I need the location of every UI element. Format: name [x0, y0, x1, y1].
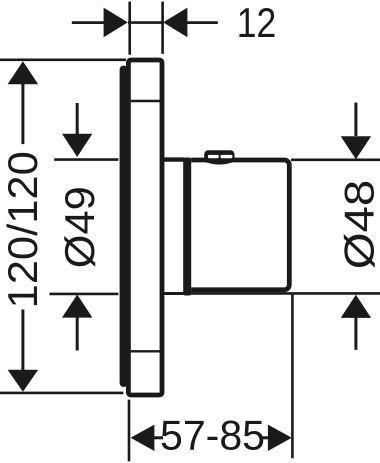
svg-text:Ø48: Ø48 — [336, 180, 380, 270]
svg-text:57-85: 57-85 — [160, 413, 265, 459]
svg-text:120/120: 120/120 — [0, 151, 46, 308]
svg-text:12: 12 — [237, 0, 277, 46]
svg-text:Ø49: Ø49 — [57, 186, 103, 268]
